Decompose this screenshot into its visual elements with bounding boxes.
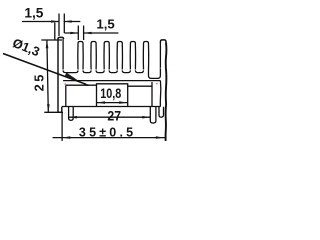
left channel bottom	[63, 70, 78, 72]
svg-text:1,5: 1,5	[96, 16, 114, 31]
arrowhead dim1.5L left-pointing	[64, 20, 72, 23]
heatsink left wall inner edge	[62, 39, 64, 70]
dim 35: extension lines	[61, 112, 63, 141]
dim 35: dimension line with left tail	[53, 137, 166, 139]
fin 1	[78, 42, 83, 70]
dim 10,8: dimension line	[97, 102, 127, 104]
slot 1-2	[83, 70, 91, 72]
pin 2	[69, 107, 74, 121]
fin 6	[143, 42, 148, 70]
svg-text:1,5: 1,5	[24, 5, 43, 20]
leader line for hole dia 1,3	[3, 54, 89, 86]
arrowhead dim25 up	[46, 40, 49, 48]
right wall outer edge wavy down to right pin bottom	[165, 43, 168, 142]
left shelf line	[66, 85, 97, 106]
arrowhead dim27 left	[69, 116, 77, 119]
arrowhead dim35 left	[62, 136, 70, 139]
fin 3	[104, 42, 109, 70]
dim 25: bottom tick	[44, 111, 63, 113]
arrowhead dim25 down	[47, 104, 50, 112]
pin 3	[150, 107, 156, 124]
slot 4-5	[122, 70, 130, 72]
slot 3-4	[109, 70, 117, 72]
right wall top cap	[160, 40, 166, 43]
base top line	[63, 80, 160, 82]
dim 1,5 right: dimension line with tails	[64, 32, 118, 34]
arrowhead dim27 right	[142, 116, 150, 119]
deep slot	[149, 43, 161, 79]
slot 2-3	[96, 70, 104, 72]
dim 25: dimension line	[47, 40, 48, 112]
dim 27: dimension line	[69, 116, 150, 118]
arrowhead dim10.8 left	[97, 101, 105, 104]
dim 1,5 right: extension lines	[78, 26, 83, 41]
svg-text:25: 25	[31, 72, 46, 91]
arrowhead dim1.5L right-pointing	[51, 20, 59, 23]
base bottom line	[62, 106, 161, 108]
right pin	[159, 107, 164, 118]
arrowhead dim1.5R left-pointing	[84, 32, 92, 35]
dim 25: extension stub	[54, 23, 56, 41]
right wall inner edge lower part	[159, 81, 162, 107]
svg-text:Ø1,3: Ø1,3	[11, 35, 42, 59]
svg-text:35±0.5: 35±0.5	[79, 125, 136, 139]
scan artifact specks	[65, 68, 161, 85]
svg-text:27: 27	[107, 108, 121, 124]
fin 2	[91, 42, 96, 70]
arrowhead leader	[64, 73, 78, 81]
dim 25: top tick	[41, 39, 62, 41]
arrowhead dim10.8 right	[119, 101, 127, 104]
svg-text:10,8: 10,8	[100, 86, 121, 102]
fin 5	[130, 42, 135, 70]
dim 1,5 left: extension lines	[59, 14, 64, 37]
slot 5-6	[135, 70, 143, 72]
arrowhead dim1.5R right-pointing	[70, 32, 78, 35]
dim 1,5 left: dimension line with tails	[22, 21, 80, 23]
heatsink left wall outer edge down to left pin bottom	[58, 37, 64, 112]
arrowhead dim35 right	[156, 136, 164, 139]
channel box 10.8	[97, 84, 128, 107]
fin 4	[117, 42, 122, 70]
right shelf line	[128, 82, 152, 107]
